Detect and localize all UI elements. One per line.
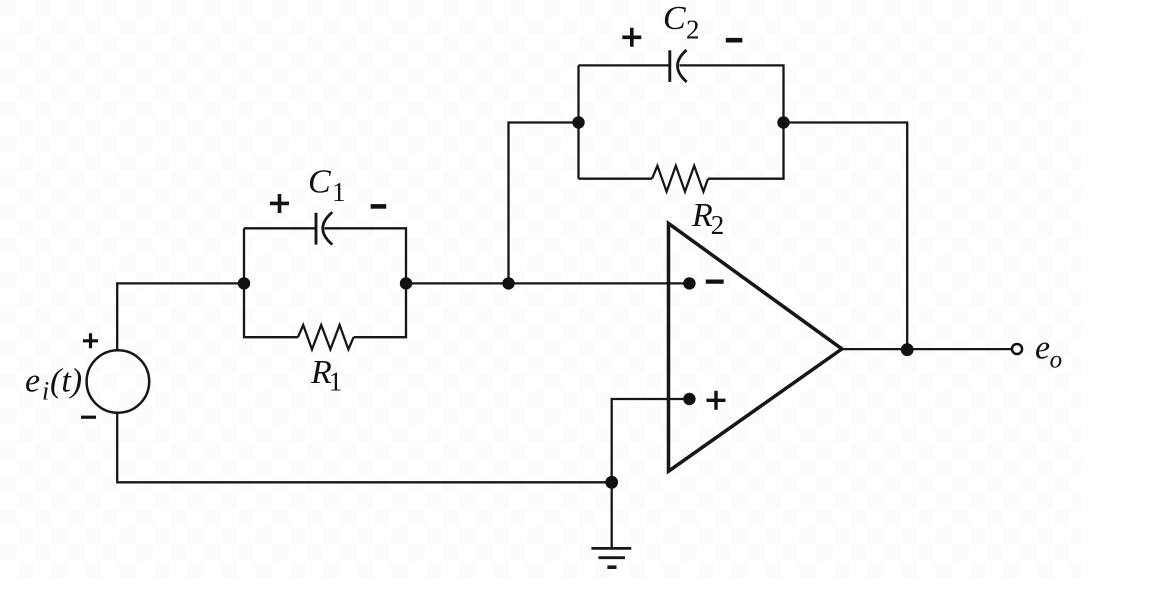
svg-text:e: e bbox=[1035, 330, 1050, 367]
node dot R1C1 right bbox=[400, 277, 412, 289]
svg-text:1: 1 bbox=[332, 177, 346, 207]
wire C1 loop left lower vertical bbox=[244, 283, 298, 337]
svg-text:(t): (t) bbox=[50, 362, 82, 399]
wire non-inverting input bbox=[612, 399, 690, 482]
svg-text:o: o bbox=[1050, 347, 1063, 374]
ground bar 1 bbox=[591, 547, 631, 550]
capacitor C1 curved plate bbox=[323, 212, 333, 244]
node dot R1C1 left bbox=[238, 277, 250, 289]
plus sign source bbox=[83, 333, 98, 348]
svg-text:R: R bbox=[691, 197, 713, 234]
svg-text:C: C bbox=[663, 0, 686, 37]
plus sign C1 bbox=[270, 194, 289, 213]
resistor R2 bbox=[652, 166, 708, 192]
wire mid net: R1C1 right node to op-amp inverting input bbox=[406, 282, 689, 284]
svg-text:1: 1 bbox=[329, 366, 343, 396]
node dot mid junction bbox=[502, 277, 514, 289]
wire C1 top left half bbox=[244, 227, 315, 229]
node dot output junction bbox=[901, 343, 914, 356]
minus sign C2 bbox=[726, 38, 743, 43]
wire bottom return to ground junction bbox=[116, 481, 612, 483]
capacitor C1 flat plate bbox=[315, 213, 318, 245]
wire output bbox=[842, 348, 1011, 350]
ground bar 3 bbox=[607, 565, 616, 569]
wire C2 loop left vertical bbox=[577, 65, 579, 178]
capacitor C2 curved plate bbox=[678, 50, 687, 82]
svg-text:e: e bbox=[25, 362, 40, 399]
svg-text:C: C bbox=[308, 163, 331, 200]
wire source bottom down to return bbox=[116, 413, 118, 481]
wire C2 right node to feedback corner down to output bbox=[784, 123, 908, 350]
minus sign op-amp inverting bbox=[706, 280, 724, 284]
minus sign C1 bbox=[371, 204, 387, 209]
svg-text:i: i bbox=[42, 376, 49, 405]
wire junction up to C2 loop bbox=[509, 123, 579, 284]
wire C1 top right half bbox=[325, 228, 407, 283]
minus sign source bbox=[81, 416, 96, 419]
wire R2 right to loop corner bbox=[708, 123, 784, 179]
ground bar 2 bbox=[598, 556, 625, 559]
wire input top: source top to R1C1 left node bbox=[117, 283, 244, 350]
wire R1 right to loop corner bbox=[354, 283, 406, 337]
node dot op-amp inverting pin bbox=[683, 277, 695, 289]
node dot C2 right bbox=[777, 116, 789, 128]
svg-text:2: 2 bbox=[686, 15, 700, 45]
wire C1 loop left vertical bbox=[243, 228, 245, 283]
plus sign op-amp non-inverting bbox=[707, 391, 726, 410]
op-amp U1 triangle bbox=[669, 223, 842, 471]
wire C2 top left half bbox=[579, 64, 669, 66]
plus sign C2 bbox=[622, 28, 641, 47]
capacitor C2 flat plate bbox=[668, 50, 671, 82]
node dot C2 left bbox=[572, 116, 584, 128]
output terminal open circle bbox=[1012, 344, 1022, 354]
wire ground drop bbox=[611, 482, 613, 547]
wire C2 top right half bbox=[680, 65, 784, 122]
resistor R1 bbox=[298, 325, 354, 349]
svg-text:2: 2 bbox=[711, 210, 725, 240]
node dot ground junction bbox=[605, 476, 618, 489]
node dot op-amp non-inverting pin bbox=[683, 393, 695, 405]
wire C2 loop bottom left bbox=[579, 178, 653, 180]
voltage source e_i(t) circle bbox=[87, 350, 150, 413]
